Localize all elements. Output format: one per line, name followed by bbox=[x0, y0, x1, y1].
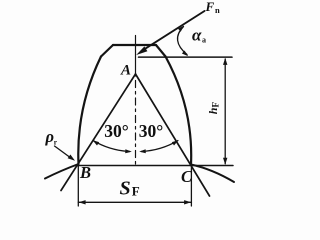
alpha arc top arrowhead bbox=[178, 26, 184, 32]
left 30deg angle arc bbox=[93, 141, 130, 152]
right arc outer arrowhead bbox=[172, 140, 179, 145]
svg-text:ρ: ρ bbox=[45, 127, 55, 146]
30 degree line A to B extended bbox=[61, 74, 136, 191]
critical section line through B and C bbox=[77, 165, 233, 167]
svg-text:A: A bbox=[120, 62, 131, 78]
alpha angle arc bbox=[178, 27, 187, 55]
svg-text:B: B bbox=[79, 163, 91, 182]
left arc inner arrowhead bbox=[125, 149, 132, 153]
right 30deg angle arc bbox=[141, 141, 178, 152]
h_F top arrowhead bbox=[223, 58, 227, 65]
right shoulder chamfer bbox=[156, 45, 166, 57]
svg-text:30°: 30° bbox=[139, 121, 164, 141]
h_F label (rotated) bbox=[206, 102, 221, 115]
right flank (involute) bbox=[166, 57, 192, 165]
center line dashed lower part bbox=[135, 81, 137, 167]
F_n arrowhead bbox=[136, 46, 147, 55]
left arc outer arrowhead bbox=[93, 140, 100, 145]
left root fillet bbox=[45, 164, 79, 179]
svg-text:S: S bbox=[120, 178, 131, 200]
30 degree line A to C extended bbox=[136, 74, 210, 196]
svg-text:F: F bbox=[211, 102, 221, 108]
right arc inner arrowhead bbox=[139, 149, 146, 153]
h_F bottom arrowhead bbox=[223, 158, 227, 165]
S_F left arrowhead bbox=[79, 200, 86, 204]
h_F dimension line bbox=[224, 59, 226, 164]
F_n force line bbox=[142, 11, 205, 51]
center line solid upper part bbox=[135, 36, 137, 77]
svg-text:a: a bbox=[202, 36, 206, 45]
tooth tip flat top bbox=[113, 44, 156, 46]
S_F extension line from C bbox=[190, 166, 192, 206]
top horizontal reference line bbox=[139, 56, 233, 58]
right root fillet bbox=[191, 165, 234, 183]
svg-text:α: α bbox=[192, 26, 202, 45]
svg-text:n: n bbox=[215, 5, 220, 15]
svg-text:F: F bbox=[205, 0, 215, 14]
svg-text:r: r bbox=[54, 138, 58, 147]
rho_f leader arrow bbox=[55, 146, 70, 157]
S_F extension line from B bbox=[77, 166, 79, 206]
svg-text:30°: 30° bbox=[104, 121, 129, 141]
alpha arc bottom arrowhead bbox=[182, 51, 188, 57]
left shoulder chamfer bbox=[101, 45, 113, 57]
svg-text:C: C bbox=[181, 167, 193, 186]
left flank (involute) bbox=[78, 57, 101, 165]
svg-text:F: F bbox=[132, 184, 140, 199]
S_F right arrowhead bbox=[184, 200, 191, 204]
S_F dimension line bbox=[78, 201, 191, 203]
